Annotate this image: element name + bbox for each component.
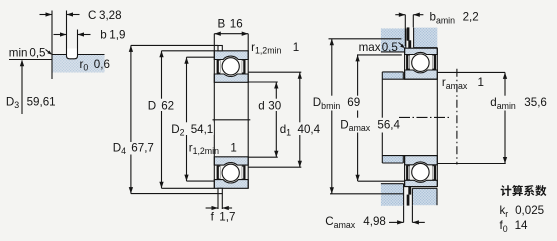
D3 arrow bbox=[20, 60, 24, 114]
inner ring top (right dwg) bbox=[405, 70, 438, 79]
label D 62 bbox=[146, 99, 177, 113]
dimension D_amax bbox=[355, 55, 404, 181]
dimension d1 bbox=[248, 72, 302, 167]
outer ring bottom bbox=[214, 180, 248, 189]
ball bottom bbox=[222, 164, 239, 181]
shield right bottom (right dwg) bbox=[432, 165, 436, 180]
snap ring tab top bbox=[218, 46, 222, 51]
shield right top (right dwg) bbox=[432, 55, 436, 70]
housing block B (top right) bbox=[414, 28, 438, 48]
inner ring bottom (right dwg) bbox=[405, 156, 438, 165]
r_a extension line (dash-dot) bbox=[456, 69, 458, 165]
snap ring (top, black) bbox=[407, 27, 411, 48]
wire: left face extension line bbox=[51, 11, 53, 80]
label 计算系数 bbox=[501, 185, 547, 196]
snap ring tab bottom bbox=[218, 188, 222, 193]
leader for max 0,5 bbox=[399, 43, 406, 49]
shield Z right top bbox=[242, 60, 246, 74]
label D4 67,7 bbox=[111, 142, 155, 157]
label d1 40,4 bbox=[278, 122, 321, 137]
shaft surface top bbox=[382, 78, 437, 80]
shaft collar bottom bbox=[382, 156, 403, 163]
dimension C bbox=[40, 12, 80, 16]
shaft break line bbox=[381, 72, 383, 163]
outer ring top bbox=[214, 51, 248, 60]
dimension d_amin bbox=[503, 72, 507, 163]
ring section block bbox=[52, 55, 105, 73]
dimension f bbox=[206, 194, 233, 211]
cover block A (top left) bbox=[381, 29, 406, 52]
bore face line left bbox=[213, 51, 215, 189]
dimension D4 bbox=[129, 45, 218, 193]
bearing left face line (top segment) bbox=[404, 48, 406, 79]
centerline (axis, dash-dot) bbox=[399, 116, 450, 118]
shield left bottom (right dwg) bbox=[406, 165, 410, 180]
label D2 54,1 bbox=[170, 122, 214, 137]
svg-text:d140,4: d140,4 bbox=[280, 123, 321, 138]
shaft collar top bbox=[382, 72, 403, 79]
shaft surface bottom bbox=[382, 155, 437, 157]
bearing left face line (bottom segment) bbox=[404, 156, 406, 187]
shield Z left bottom bbox=[217, 166, 221, 180]
inner ring bottom bbox=[214, 157, 248, 165]
d_a level line bottom bbox=[437, 163, 505, 165]
label D_bmin 69 bbox=[311, 96, 361, 111]
ball top (right dwg) bbox=[412, 54, 429, 71]
dimension b_amin bbox=[395, 13, 423, 46]
cover block A' (bottom left) bbox=[381, 184, 404, 206]
svg-text:C3,28: C3,28 bbox=[88, 9, 122, 22]
shield Z left top bbox=[217, 60, 221, 74]
dimension B bbox=[214, 32, 248, 51]
svg-text:b1,9: b1,9 bbox=[100, 28, 125, 41]
groove outline bbox=[67, 11, 78, 59]
bearing right face line bbox=[436, 48, 438, 186]
snap ring (bottom, black) bbox=[407, 187, 411, 206]
dimension D bbox=[159, 51, 214, 189]
outer ring bottom (right dwg) bbox=[405, 180, 438, 186]
shield Z right bottom bbox=[242, 166, 246, 180]
svg-text:D467,7: D467,7 bbox=[113, 142, 154, 157]
outer ring top (right dwg) bbox=[405, 48, 438, 54]
D3 level line bbox=[9, 59, 52, 61]
label d 30 bbox=[257, 99, 284, 113]
label d_amin 35,6 bbox=[489, 96, 547, 111]
dimension D2 bbox=[184, 57, 214, 181]
label D_amax 56,4 bbox=[339, 118, 401, 133]
bore face line right bbox=[247, 51, 249, 189]
svg-text:min0,5: min0,5 bbox=[9, 47, 46, 60]
dimension D_bmin bbox=[329, 39, 404, 194]
bore mid line bbox=[213, 119, 251, 121]
d_a level line top bbox=[437, 71, 505, 73]
svg-text:D62: D62 bbox=[148, 99, 174, 112]
ball top bbox=[222, 58, 239, 75]
ball bottom (right dwg) bbox=[412, 163, 429, 180]
dimension d bbox=[248, 82, 278, 157]
svg-text:max0,5: max0,5 bbox=[359, 41, 398, 54]
svg-text:d30: d30 bbox=[258, 99, 281, 112]
leader for min 0,5 bbox=[46, 50, 53, 55]
svg-text:D359,61: D359,61 bbox=[6, 95, 56, 110]
dimension C_amax bbox=[389, 205, 425, 224]
groove (snap ring groove cut) bbox=[67, 49, 78, 59]
shield left top (right dwg) bbox=[406, 55, 410, 70]
dimension b bbox=[54, 32, 91, 36]
svg-text:B16: B16 bbox=[218, 17, 243, 30]
svg-text:D254,1: D254,1 bbox=[171, 123, 213, 138]
inner ring top bbox=[214, 74, 248, 82]
housing block B' (bottom right) bbox=[412, 188, 437, 205]
